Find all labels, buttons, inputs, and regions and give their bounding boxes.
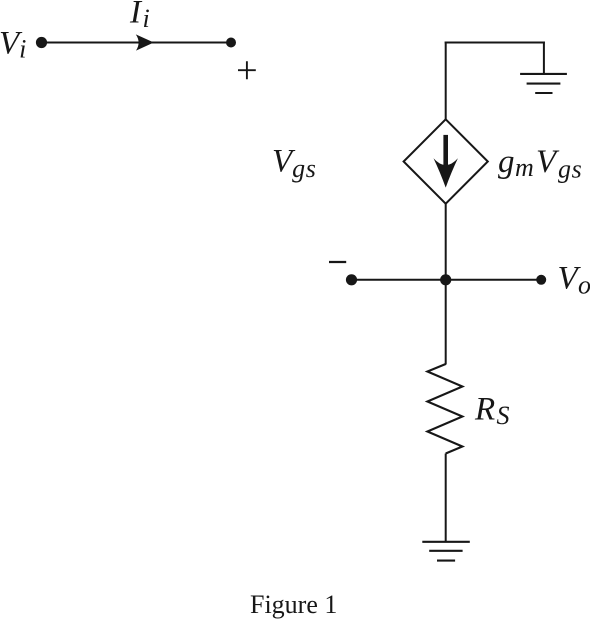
svg-text:RS: RS [474, 392, 510, 431]
resistor RS zigzag [427, 364, 462, 454]
current source arrow (downward) [434, 135, 458, 188]
svg-text:gmVgs: gmVgs [498, 144, 582, 184]
svg-text:Vgs: Vgs [272, 144, 317, 184]
node left (minus side) dot [346, 274, 357, 285]
polarity minus sign [329, 261, 346, 263]
svg-text:Figure 1: Figure 1 [250, 590, 337, 619]
ground (top right) [520, 74, 567, 93]
wire down into top ground [543, 42, 545, 74]
svg-text:Ii: Ii [129, 0, 150, 33]
ground (bottom) [422, 542, 470, 561]
wire top horizontal to ground [445, 42, 545, 44]
junction node dot [440, 274, 451, 285]
wire output horizontal [352, 279, 542, 281]
polarity plus sign [238, 61, 256, 79]
svg-text:Vo: Vo [558, 261, 590, 300]
dependent current source U1 diamond [404, 119, 488, 203]
node gate terminal dot (+ side) [226, 38, 236, 48]
wire from diamond top up [445, 42, 447, 120]
wire resistor to bottom ground [445, 454, 447, 542]
arrowhead current Ii direction [136, 34, 154, 50]
node Vi input terminal dot [36, 37, 47, 48]
wire from diamond bottom through junction to resistor [445, 204, 447, 365]
wire input horizontal [42, 42, 232, 44]
svg-text:Vi: Vi [0, 26, 26, 64]
node Vo output dot [536, 275, 546, 285]
